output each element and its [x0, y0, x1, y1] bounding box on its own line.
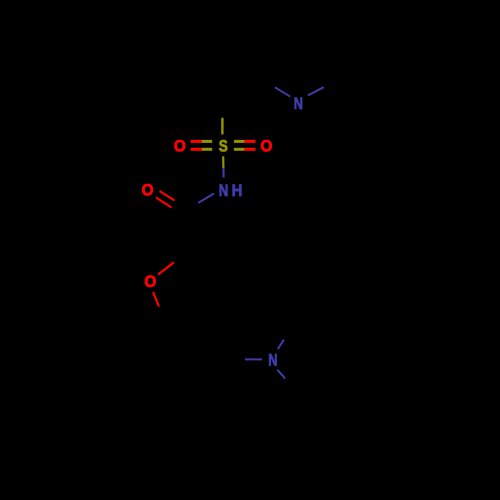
- double bond S=O left, lower line (olive half): [202, 148, 212, 151]
- double bond S=O left, upper line (red half): [191, 140, 202, 143]
- bond N1 upper-right half (blue): [308, 87, 324, 95]
- double bond C=O carbonyl, lower-left line (red half): [156, 198, 172, 208]
- svg-text:O: O: [144, 272, 156, 291]
- bond N2-C carbonyl, nitrogen half (blue): [198, 194, 214, 203]
- double bond S=O right, lower line (red half): [244, 148, 255, 151]
- bond S-N amide, nitrogen half (blue): [222, 168, 224, 178]
- svg-text:O: O: [174, 137, 186, 156]
- svg-text:N: N: [294, 94, 303, 113]
- svg-text:O: O: [142, 181, 154, 200]
- bond C-S half (olive) above sulfur: [221, 118, 223, 135]
- bond furan O-C2 upper-right half (red): [158, 262, 174, 274]
- bond furan O-C5 lower half (red): [153, 292, 159, 306]
- double bond S=O left, upper line (olive half): [202, 140, 212, 143]
- bond N1 upper-left half (blue): [275, 87, 290, 96]
- double bond S=O right, upper line (red half): [244, 140, 255, 143]
- svg-text:H: H: [232, 182, 243, 200]
- double bond C=O carbonyl, upper-right line (red half): [160, 191, 175, 201]
- bond N3 upper-right half (blue): [278, 340, 284, 350]
- double bond S=O left, lower line (red half): [191, 148, 202, 151]
- svg-text:N: N: [219, 181, 229, 200]
- svg-text:O: O: [260, 137, 272, 156]
- svg-text:S: S: [219, 137, 228, 156]
- bond N3 left horizontal half (blue): [245, 358, 262, 360]
- svg-text:N: N: [268, 351, 277, 370]
- bond N3 lower-right half (blue): [277, 370, 285, 379]
- double bond S=O right, upper line (olive half): [234, 140, 244, 143]
- double bond S=O right, lower line (olive half): [234, 148, 244, 151]
- bond S-N amide, sulfur half (olive): [222, 156, 224, 168]
